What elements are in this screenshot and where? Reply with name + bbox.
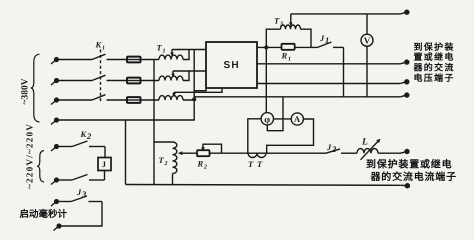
label J3 <box>76 187 87 199</box>
svg-text:2: 2 <box>86 131 92 141</box>
wire voltage line 1 <box>257 63 400 65</box>
wire phi top <box>265 47 267 113</box>
svg-text:V: V <box>364 35 371 45</box>
wire left bus vertical <box>153 60 155 185</box>
node K2 terminal 1 <box>51 144 59 151</box>
label phi <box>264 115 270 125</box>
brace 380V <box>31 54 40 122</box>
label A <box>294 114 301 124</box>
wire T2 tap to R2 <box>186 152 197 154</box>
svg-text:到保护装置或继电: 到保护装置或继电 <box>366 159 452 171</box>
switch J2 <box>326 149 357 153</box>
label start millisecond meter <box>20 208 68 220</box>
wire T3 top line <box>291 13 401 15</box>
svg-text:T: T <box>248 159 254 169</box>
wire T1 tap A to SH <box>172 49 206 51</box>
switch K2 <box>59 141 105 180</box>
node phase C terminal <box>51 97 59 104</box>
transformer T3 <box>266 14 311 48</box>
svg-text:到保护装: 到保护装 <box>414 42 455 52</box>
svg-text:R: R <box>281 51 288 61</box>
svg-text:~380V: ~380V <box>21 78 31 104</box>
node voltage terminal 2 <box>400 79 409 84</box>
switch J1 <box>318 42 344 47</box>
svg-text:1: 1 <box>102 46 105 52</box>
wire phase B to T1 <box>142 71 189 81</box>
svg-text:3: 3 <box>81 189 87 199</box>
label T3 <box>274 16 283 28</box>
wire phase A mid <box>107 59 127 61</box>
wire bottom return <box>126 184 401 187</box>
label K2 <box>80 129 93 141</box>
box SH <box>206 42 257 88</box>
svg-text:2: 2 <box>203 165 207 171</box>
label ~380V <box>21 78 31 104</box>
transformer T1 winding C <box>159 92 183 100</box>
wire phase C left <box>59 99 92 101</box>
label SH <box>224 60 240 71</box>
fuse FU1 <box>126 57 142 63</box>
label ~220V/~220V <box>25 123 35 189</box>
label T1 <box>157 43 166 55</box>
transformer T1 winding A <box>159 50 183 60</box>
wire voltage line 3 <box>194 96 400 98</box>
brace 220V <box>37 151 44 183</box>
wire phi left to current line <box>248 119 262 153</box>
node current terminal 2 <box>401 183 410 188</box>
svg-text:启动毫秒计: 启动毫秒计 <box>20 208 68 220</box>
node phase A terminal <box>51 57 59 64</box>
svg-text:电压端子: 电压端子 <box>414 73 455 83</box>
wire SH top output <box>257 46 282 48</box>
wire T1 star vertical <box>193 50 195 121</box>
svg-text:SH: SH <box>224 60 240 71</box>
resistor R1 <box>282 44 318 50</box>
relay J box <box>98 147 111 181</box>
wire neutral <box>59 119 195 121</box>
wire T1 tap B to SH <box>173 70 206 72</box>
node junction SH-T3 <box>264 45 268 49</box>
switch K1 <box>92 50 106 104</box>
svg-text:1: 1 <box>163 49 166 55</box>
label J1 <box>319 33 329 45</box>
svg-text:器的交流电流端子: 器的交流电流端子 <box>370 171 457 183</box>
node J3 terminal 2 <box>54 223 62 230</box>
svg-text:2: 2 <box>164 161 168 167</box>
label T2 <box>159 155 168 167</box>
node current terminal 1 <box>401 149 410 154</box>
wire phi-A link <box>273 118 291 120</box>
svg-text:L: L <box>361 138 368 148</box>
svg-text:3: 3 <box>279 22 283 28</box>
svg-text:置或继电: 置或继电 <box>414 52 455 62</box>
svg-text:1: 1 <box>325 35 329 45</box>
wire J1 down <box>343 47 345 96</box>
ammeter A <box>291 113 303 125</box>
node T1 star junction <box>192 97 196 101</box>
node voltage terminal 1 <box>400 59 409 64</box>
transformer T2 <box>173 142 187 185</box>
label J2 <box>326 142 337 154</box>
label V <box>364 35 371 45</box>
voltmeter V <box>361 14 373 97</box>
wire phase A left <box>59 59 92 61</box>
wire phase A to T1 <box>142 50 189 60</box>
label voltage terminals text <box>413 42 455 83</box>
wire phi bottom loop <box>267 97 283 131</box>
fuse FU2 <box>126 78 142 84</box>
wire current line right <box>378 152 401 154</box>
node neutral terminal <box>51 117 59 124</box>
svg-text:~220V/~220V: ~220V/~220V <box>25 123 35 189</box>
wire phase C mid <box>107 99 127 101</box>
label J <box>102 159 107 169</box>
node voltage terminal 0 <box>400 10 409 15</box>
fuse FU3 <box>126 97 142 103</box>
svg-text:φ: φ <box>264 115 270 125</box>
label R1 <box>281 51 292 63</box>
label R2 <box>197 159 208 171</box>
node K2 terminal 2 <box>51 177 59 184</box>
wire phase B mid <box>107 80 127 82</box>
wire phase C to T1 <box>142 99 194 101</box>
label K1 <box>95 40 106 52</box>
svg-text:2: 2 <box>331 144 337 154</box>
node J3 terminal 1 <box>51 199 59 206</box>
node voltage terminal 3 <box>400 92 409 97</box>
wire neutral drop <box>125 120 127 185</box>
label L <box>361 138 368 148</box>
node phase B terminal <box>51 78 59 85</box>
label TT <box>248 159 263 169</box>
transformer T1 winding B <box>159 71 183 81</box>
wire SH bottom-left notch <box>194 88 206 91</box>
svg-text:1: 1 <box>288 57 291 63</box>
current transformer TT <box>248 153 266 157</box>
rheostat R2 <box>197 144 222 156</box>
label current terminals text <box>366 159 457 184</box>
wire voltage line 2 <box>257 83 400 85</box>
inductor L <box>357 139 381 160</box>
wire phase B left <box>59 80 92 82</box>
wire T1 tap C under SH <box>174 88 222 92</box>
svg-text:J: J <box>102 159 107 169</box>
switch J3 <box>59 196 102 226</box>
wire current line <box>210 152 327 154</box>
svg-text:器的交流: 器的交流 <box>413 63 455 73</box>
phase meter phi <box>261 113 273 125</box>
svg-text:T: T <box>257 159 263 169</box>
svg-text:A: A <box>294 114 301 124</box>
svg-text:R: R <box>197 159 204 169</box>
wire A right loop <box>267 119 314 153</box>
wire bus to T2 <box>154 141 173 143</box>
